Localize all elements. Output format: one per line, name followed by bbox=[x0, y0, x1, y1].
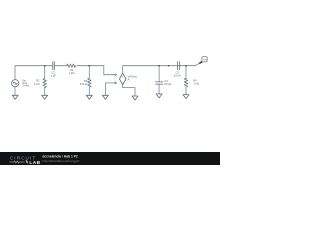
sine wave inside source bbox=[13, 82, 17, 84]
svg-text:1 kΩ: 1 kΩ bbox=[34, 82, 40, 86]
wire top rail from source to C1 bbox=[15, 66, 53, 80]
wire source to ground bbox=[14, 87, 16, 96]
ground under R3 bbox=[86, 95, 92, 99]
output flag Vo box bbox=[202, 57, 207, 62]
wire C2 top bbox=[158, 66, 160, 82]
svg-text:R1: R1 bbox=[36, 78, 40, 82]
resistor R4 zigzag bbox=[184, 78, 187, 87]
wire to output flag bbox=[196, 63, 200, 66]
svg-text:1 kΩ: 1 kΩ bbox=[193, 82, 199, 86]
svg-text:50 pF: 50 pF bbox=[164, 82, 171, 86]
wire R2 to step-down corner bbox=[77, 65, 104, 67]
svg-text:100 Ω: 100 Ω bbox=[80, 82, 87, 86]
svg-text:10 nF: 10 nF bbox=[174, 73, 181, 77]
junction dot at R4 bbox=[185, 65, 187, 67]
capacitor C2 plates bbox=[155, 81, 163, 83]
junction dot at R1 bbox=[44, 65, 46, 67]
logo bolt bbox=[26, 160, 29, 163]
ground under minus input bbox=[102, 95, 108, 99]
svg-text:1 kΩ: 1 kΩ bbox=[69, 71, 75, 75]
ground under VCVS bbox=[132, 96, 138, 100]
svg-text:http://circuitlab.com/cvrgypz: http://circuitlab.com/cvrgypz bbox=[42, 159, 80, 163]
wire step down to plus input bbox=[104, 66, 115, 75]
ground under R4 bbox=[183, 95, 189, 99]
op-amp VCVS diamond E1 bbox=[119, 73, 126, 84]
resistor R2 zigzag bbox=[67, 64, 76, 67]
junction dot mid rail bbox=[168, 65, 170, 67]
resistor R3 zigzag bbox=[88, 78, 91, 87]
minus input terminal bbox=[115, 82, 117, 84]
ground under source bbox=[12, 95, 18, 99]
ground under C2 bbox=[156, 94, 162, 98]
ground under R1 bbox=[42, 95, 48, 99]
svg-text:LAB: LAB bbox=[29, 160, 40, 165]
wire rail R3 bbox=[88, 66, 90, 79]
wire minus input to ground bbox=[105, 83, 114, 95]
capacitor C3 plates bbox=[177, 62, 179, 70]
wire C1 to R2 bbox=[54, 65, 67, 67]
wire R4 leads bbox=[185, 66, 187, 79]
svg-text:A: A bbox=[128, 77, 130, 81]
plus input terminal bbox=[115, 74, 117, 76]
svg-text:1 µF: 1 µF bbox=[50, 73, 56, 77]
wire C2 bottom bbox=[158, 84, 160, 94]
wire VCVS bottom to ground bbox=[123, 85, 135, 96]
junction dot at R3 bbox=[88, 65, 90, 67]
footer bar bbox=[0, 152, 220, 165]
junction dot at C2 bbox=[158, 65, 160, 67]
resistor R1 zigzag bbox=[43, 79, 46, 88]
voltage source V1 circle bbox=[12, 80, 19, 87]
logo wire with resistor zigzag bbox=[9, 161, 24, 163]
svg-text:Vo: Vo bbox=[203, 58, 207, 62]
output flag Vo pin bbox=[199, 62, 202, 64]
wire VCVS output top to rail bbox=[123, 66, 196, 74]
svg-text:2 kHz: 2 kHz bbox=[22, 83, 30, 87]
capacitor C1 plates bbox=[52, 62, 54, 70]
wire rail R1 bbox=[44, 66, 46, 79]
